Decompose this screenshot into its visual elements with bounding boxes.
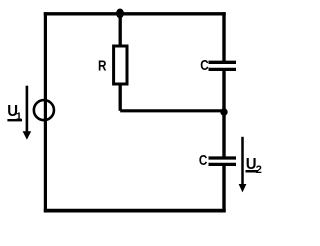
svg-text:2: 2 — [256, 164, 262, 176]
svg-text:R: R — [98, 57, 107, 74]
svg-text:1: 1 — [16, 111, 22, 123]
svg-text:C: C — [200, 57, 209, 74]
svg-text:C: C — [199, 152, 208, 169]
